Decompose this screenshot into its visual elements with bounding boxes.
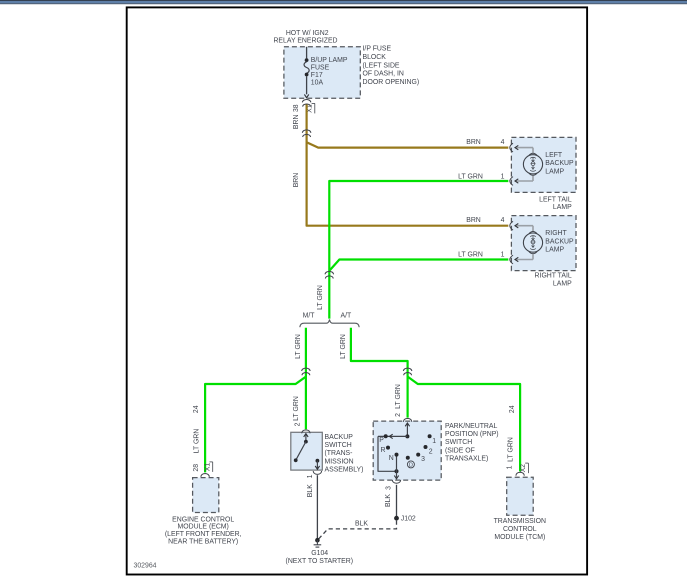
- left backup lamp bulb: [515, 145, 543, 183]
- left lamp pin4 connector: [510, 143, 513, 152]
- backup switch box: [291, 432, 323, 470]
- label contact 3: [421, 456, 425, 463]
- label P position: [379, 437, 384, 444]
- wire BLK backup switch to ground: [316, 475, 318, 538]
- wire BRN branch to left backup lamp: [307, 142, 509, 147]
- svg-text:3: 3: [421, 456, 425, 463]
- svg-text:LT GRN: LT GRN: [458, 252, 483, 259]
- label LT GRN to backup switch: [293, 396, 300, 421]
- svg-text:BACKUP: BACKUP: [545, 160, 574, 167]
- svg-text:2: 2: [295, 422, 302, 426]
- svg-text:2: 2: [429, 448, 433, 455]
- svg-text:I/P FUSE: I/P FUSE: [363, 46, 392, 53]
- splice connector on LT GRN wire: [325, 271, 334, 278]
- pin 3 PNP switch: [385, 486, 392, 490]
- label BRN right lamp: [466, 217, 481, 224]
- svg-text:N: N: [389, 455, 394, 462]
- pin 4 right lamp: [501, 217, 505, 224]
- svg-text:2: 2: [395, 413, 402, 417]
- connector on A/T branch: [403, 368, 412, 375]
- svg-text:(SIDE OF: (SIDE OF: [445, 447, 475, 454]
- browser chrome strip top: [0, 0, 687, 4]
- right lamp pin4 connector: [510, 221, 513, 230]
- svg-text:LT GRN: LT GRN: [340, 334, 347, 359]
- label contact 2: [429, 448, 433, 455]
- svg-text:OF DASH, IN: OF DASH, IN: [363, 71, 404, 78]
- left lamp pin1 connector: [510, 177, 513, 186]
- label X1 ECM connector: [205, 462, 213, 472]
- svg-text:BRN: BRN: [293, 115, 300, 130]
- backup switch connector arc: [302, 430, 310, 433]
- label I/P FUSE BLOCK location: [363, 46, 420, 86]
- pin 1 TCM: [506, 465, 513, 469]
- label LT GRN left lamp: [458, 173, 483, 180]
- wire BLK PNP to J102: [396, 485, 398, 516]
- svg-text:LAMP: LAMP: [545, 247, 564, 254]
- svg-text:MODULE (ECM): MODULE (ECM): [178, 524, 229, 531]
- fuse block I/P box: [284, 47, 360, 99]
- svg-text:MODULE (TCM): MODULE (TCM): [494, 534, 545, 541]
- svg-text:4: 4: [501, 139, 505, 146]
- label TRANSMISSION CONTROL MODULE: [494, 518, 546, 541]
- wire BRN main vertical and branch to right lamp: [307, 105, 509, 226]
- label 38 circuit: [293, 104, 300, 112]
- pin 2 backup switch: [295, 422, 302, 426]
- svg-text:TRANSAXLE): TRANSAXLE): [445, 455, 488, 462]
- transmission control module box: [507, 477, 534, 515]
- label LT GRN TCM wire: [508, 437, 515, 462]
- connector X1 inline below fuse block: [302, 100, 311, 107]
- splice connector on BRN wire: [302, 130, 311, 137]
- PNP switch contacts: [378, 423, 432, 479]
- svg-text:ASSEMBLY): ASSEMBLY): [325, 466, 364, 473]
- label HOT W/ IGN2 RELAY ENERGIZED: [273, 30, 337, 44]
- label LEFT TAIL LAMP: [539, 197, 572, 212]
- svg-text:LEFT: LEFT: [545, 152, 563, 159]
- wire LT GRN from right lamp joining main: [330, 260, 509, 271]
- svg-text:J102: J102: [401, 515, 416, 522]
- label LT GRN center: [317, 285, 324, 310]
- label BLK PNP wire: [385, 494, 392, 507]
- label BRN upper: [293, 115, 300, 130]
- svg-text:(LEFT SIDE: (LEFT SIDE: [363, 62, 400, 69]
- svg-text:28: 28: [193, 464, 200, 472]
- svg-text:BACKUP: BACKUP: [545, 238, 574, 245]
- svg-text:ENGINE CONTROL: ENGINE CONTROL: [172, 516, 234, 523]
- left backup lamp box: [511, 137, 576, 192]
- svg-text:LT GRN: LT GRN: [295, 334, 302, 359]
- pin 1 backup switch: [307, 474, 314, 478]
- label BLK jumper: [355, 520, 368, 527]
- pin 1 left lamp: [501, 173, 505, 180]
- label X2 TCM connector: [520, 463, 528, 473]
- svg-text:BLK: BLK: [355, 520, 368, 527]
- svg-text:(TRANS-: (TRANS-: [325, 450, 353, 457]
- svg-text:SWITCH: SWITCH: [325, 442, 352, 449]
- svg-text:R: R: [381, 447, 386, 454]
- ground G104: [314, 538, 322, 547]
- right lamp pin1 connector: [510, 255, 513, 264]
- label BACKUP SWITCH: [325, 434, 364, 473]
- svg-text:1: 1: [307, 474, 314, 478]
- wire LT GRN branch to TCM: [408, 377, 520, 472]
- pin 2 PNP switch: [395, 413, 402, 417]
- label LEFT BACKUP LAMP: [545, 152, 574, 175]
- label 24 TCM wire: [509, 405, 516, 413]
- label X1: [307, 103, 315, 113]
- backup switch contacts: [294, 434, 320, 470]
- svg-text:LT GRN: LT GRN: [194, 429, 201, 454]
- wire LT GRN M/T branch down to backup switch: [305, 328, 307, 429]
- label R position: [381, 447, 386, 454]
- label BRN lower: [293, 173, 300, 188]
- park neutral position switch box: [373, 421, 441, 480]
- engine control module box: [193, 478, 219, 513]
- svg-text:LAMP: LAMP: [553, 204, 572, 211]
- connector on M/T branch: [302, 368, 311, 375]
- label NEXT TO STARTER: [286, 558, 354, 565]
- svg-text:1: 1: [501, 252, 505, 259]
- svg-text:RIGHT: RIGHT: [545, 230, 567, 237]
- svg-text:1: 1: [432, 438, 436, 445]
- svg-text:HOT W/ IGN2: HOT W/ IGN2: [286, 30, 329, 37]
- svg-text:RIGHT TAIL: RIGHT TAIL: [535, 273, 572, 280]
- TCM connector arc: [516, 472, 524, 475]
- pin 4 left lamp: [501, 139, 505, 146]
- diagram border frame: [127, 7, 587, 574]
- label N position: [389, 455, 394, 462]
- svg-text:B/UP LAMP: B/UP LAMP: [311, 57, 348, 64]
- svg-text:POSITION (PNP): POSITION (PNP): [445, 431, 499, 438]
- svg-text:BRN: BRN: [466, 139, 481, 146]
- PNP switch connector arc: [403, 418, 411, 421]
- label LT GRN ECM wire: [194, 429, 201, 454]
- svg-text:LT GRN: LT GRN: [508, 437, 515, 462]
- label LT GRN to PNP: [395, 384, 402, 409]
- label LT GRN right lamp: [458, 252, 483, 259]
- svg-text:NEAR THE BATTERY): NEAR THE BATTERY): [168, 539, 238, 546]
- svg-text:LAMP: LAMP: [553, 280, 572, 287]
- svg-text:BRN: BRN: [293, 173, 300, 188]
- label BLK backup switch wire: [307, 484, 314, 497]
- svg-text:3: 3: [385, 486, 392, 490]
- M/T A/T option brace: [300, 320, 359, 328]
- svg-text:DOOR OPENING): DOOR OPENING): [363, 79, 420, 86]
- pin 1 right lamp: [501, 252, 505, 259]
- svg-text:LEFT TAIL: LEFT TAIL: [539, 197, 572, 204]
- label BRN left lamp: [466, 139, 481, 146]
- svg-text:G104: G104: [311, 550, 328, 557]
- svg-text:24: 24: [193, 405, 200, 413]
- svg-text:X2: X2: [520, 464, 527, 473]
- label RIGHT BACKUP LAMP: [545, 230, 574, 253]
- right backup lamp bulb: [515, 224, 543, 262]
- label A/T: [341, 313, 353, 320]
- svg-text:LT GRN: LT GRN: [458, 173, 483, 180]
- svg-text:MISSION: MISSION: [325, 458, 354, 465]
- wire BLK dashed J102 to ground: [319, 521, 397, 539]
- svg-text:D: D: [409, 463, 413, 469]
- wire LT GRN from left lamp down to splice: [329, 181, 508, 319]
- svg-text:TRANSMISSION: TRANSMISSION: [494, 518, 546, 525]
- right backup lamp box: [511, 216, 576, 271]
- label LT GRN A/T upper: [340, 334, 347, 359]
- PNP bottom connector: [392, 480, 400, 483]
- svg-text:A/T: A/T: [341, 313, 353, 320]
- label G104: [311, 550, 328, 557]
- label PARK/NEUTRAL POSITION SWITCH: [445, 423, 499, 462]
- svg-text:BLK: BLK: [307, 484, 314, 497]
- svg-text:38: 38: [293, 104, 300, 112]
- svg-text:RELAY ENERGIZED: RELAY ENERGIZED: [273, 37, 337, 44]
- svg-text:BLK: BLK: [385, 494, 392, 507]
- svg-text:BRN: BRN: [466, 217, 481, 224]
- svg-text:BACKUP: BACKUP: [325, 434, 354, 441]
- svg-text:X1: X1: [205, 463, 212, 472]
- label ENGINE CONTROL MODULE: [165, 516, 242, 545]
- pin 28 ECM: [193, 464, 200, 472]
- svg-text:P: P: [379, 437, 384, 444]
- svg-text:LT GRN: LT GRN: [395, 384, 402, 409]
- wire LT GRN A/T branch to PNP switch: [351, 328, 408, 418]
- svg-text:LT GRN: LT GRN: [293, 396, 300, 421]
- svg-text:LAMP: LAMP: [545, 168, 564, 175]
- junction J102: [394, 515, 416, 522]
- label D position circled: [407, 461, 414, 469]
- svg-text:M/T: M/T: [303, 313, 316, 320]
- svg-text:FUSE: FUSE: [311, 64, 330, 71]
- svg-text:(LEFT FRONT FENDER,: (LEFT FRONT FENDER,: [165, 531, 242, 538]
- label B/UP LAMP FUSE F17 10A: [311, 57, 348, 87]
- label LT GRN M/T upper: [295, 334, 302, 359]
- svg-text:F17: F17: [311, 72, 323, 79]
- ECM connector arc: [201, 474, 209, 477]
- label 24 ECM wire: [193, 405, 200, 413]
- svg-text:LT GRN: LT GRN: [317, 285, 324, 310]
- backup switch bottom connector: [313, 471, 321, 474]
- svg-text:SWITCH: SWITCH: [445, 439, 472, 446]
- svg-text:BLOCK: BLOCK: [363, 54, 387, 61]
- label M/T: [303, 313, 316, 320]
- svg-text:PARK/NEUTRAL: PARK/NEUTRAL: [445, 423, 497, 430]
- svg-text:24: 24: [509, 405, 516, 413]
- svg-text:CONTROL: CONTROL: [503, 526, 537, 533]
- svg-text:10A: 10A: [311, 80, 324, 87]
- wire LT GRN branch to ECM: [205, 377, 306, 473]
- label 302964: [134, 563, 157, 570]
- svg-text:4: 4: [501, 217, 505, 224]
- fuse F17 B/UP LAMP 10A: [304, 47, 309, 98]
- svg-text:1: 1: [506, 465, 513, 469]
- label contact 1: [432, 438, 436, 445]
- label RIGHT TAIL LAMP: [535, 273, 573, 288]
- svg-text:1: 1: [501, 173, 505, 180]
- svg-text:(NEXT TO STARTER): (NEXT TO STARTER): [286, 558, 354, 565]
- svg-text:302964: 302964: [134, 563, 157, 570]
